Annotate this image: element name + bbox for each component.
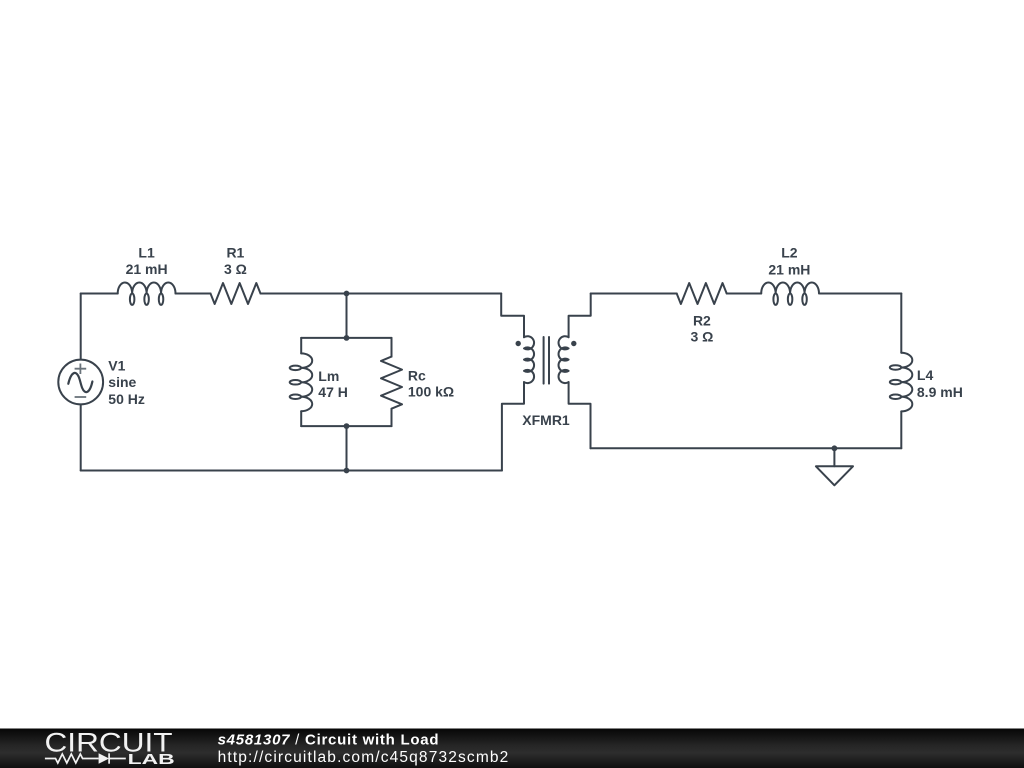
voltage source V1 circle (58, 360, 103, 405)
inductor L2 loop 1 (773, 294, 778, 305)
wire R1 to transformer primary top (261, 293, 502, 295)
svg-text:8.9 mH: 8.9 mH (917, 384, 963, 400)
node junction top (344, 291, 350, 297)
svg-text:50 Hz: 50 Hz (108, 391, 145, 407)
logo resistor-diode graphic (45, 753, 126, 763)
inductor L4 humps (901, 353, 912, 412)
inductor Lm loop 1 (290, 366, 301, 371)
inductor L2 humps (761, 282, 819, 293)
resistor Rc zigzag (381, 357, 402, 409)
node junction rect bottom (344, 423, 350, 429)
wire top-left from V1 to L1 (81, 293, 118, 295)
wire left vertical above V1 (80, 294, 82, 360)
inductor L4 loop 3 (890, 395, 901, 400)
ground triangle (816, 466, 853, 485)
inductor L1 humps (118, 282, 176, 293)
inductor Lm loop 3 (290, 395, 301, 400)
wire Rc bottom stub (391, 409, 393, 426)
node ground junction (832, 445, 838, 451)
node junction bottom rail (344, 468, 350, 474)
svg-text:R1: R1 (226, 245, 244, 261)
transformer XFMR1 primary coil (524, 336, 534, 383)
svg-text:21 mH: 21 mH (126, 261, 168, 277)
svg-text:s4581307 / Circuit with Load: s4581307 / Circuit with Load (218, 732, 440, 749)
node junction rect top (344, 335, 350, 341)
wire transformer primary bottom lead (502, 382, 524, 470)
wire parallel rect top rail (301, 337, 391, 339)
svg-text:47 H: 47 H (318, 384, 348, 400)
svg-text:L2: L2 (781, 245, 798, 261)
wire junction vertical bottom (346, 426, 348, 470)
wire Rc top stub (391, 338, 393, 357)
wire transformer secondary bottom lead (569, 382, 591, 448)
wire parallel rect bottom rail (301, 425, 391, 427)
svg-text:Lm: Lm (318, 368, 339, 384)
ground stub (833, 448, 835, 466)
transformer primary phase dot (516, 341, 521, 346)
inductor L4 loop 1 (890, 365, 901, 370)
wire secondary top to R2 (591, 293, 677, 295)
svg-text:Rc: Rc (408, 368, 426, 384)
inductor L1 loop 2 (144, 294, 149, 305)
svg-text:100 kΩ: 100 kΩ (408, 383, 454, 399)
svg-text:V1: V1 (108, 358, 125, 374)
svg-text:http://circuitlab.com/c45q8732: http://circuitlab.com/c45q8732scmb2 (218, 749, 510, 766)
wire L1 to R1 (176, 293, 211, 295)
wire junction vertical top (346, 294, 348, 338)
inductor L2 loop 3 (802, 294, 807, 305)
svg-text:21 mH: 21 mH (768, 261, 810, 277)
wire right vertical above L4 (900, 294, 902, 353)
transformer XFMR1 secondary coil (559, 336, 569, 383)
resistor R1 zigzag (211, 283, 261, 304)
inductor L4 loop 2 (890, 380, 901, 385)
svg-text:sine: sine (108, 374, 136, 390)
wire left vertical below V1 (80, 404, 82, 470)
transformer secondary phase dot (571, 341, 576, 346)
wire R2 to L2 (727, 293, 762, 295)
inductor Lm humps (301, 353, 312, 411)
V1 plus-minus marks (75, 364, 87, 398)
svg-text:L1: L1 (138, 245, 155, 261)
svg-text:3 Ω: 3 Ω (690, 329, 713, 345)
wire transformer primary top lead (501, 294, 524, 338)
inductor Lm loop 2 (290, 380, 301, 385)
wire Lm top stub (300, 338, 302, 354)
svg-text:R2: R2 (693, 313, 711, 329)
footer bar (0, 729, 1024, 768)
inductor L1 loop 3 (159, 294, 164, 305)
inductor L1 loop 1 (130, 294, 135, 305)
inductor L2 loop 2 (788, 294, 793, 305)
svg-text:XFMR1: XFMR1 (522, 412, 570, 428)
wire bottom-right rail (591, 447, 902, 449)
svg-text:L4: L4 (917, 367, 934, 383)
logo diode triangle (99, 753, 110, 763)
resistor R2 zigzag (677, 283, 727, 304)
wire bottom-left rail (81, 470, 502, 472)
transformer core bar left (543, 337, 545, 384)
svg-text:3 Ω: 3 Ω (224, 261, 247, 277)
V1 sine wave (68, 373, 92, 392)
wire Lm bottom stub (300, 411, 302, 426)
wire transformer secondary top lead (569, 294, 591, 338)
wire L2 to right edge (820, 293, 902, 295)
wire right vertical below L4 (900, 411, 902, 448)
svg-text:LAB: LAB (128, 752, 175, 768)
transformer core bar right (548, 337, 550, 384)
